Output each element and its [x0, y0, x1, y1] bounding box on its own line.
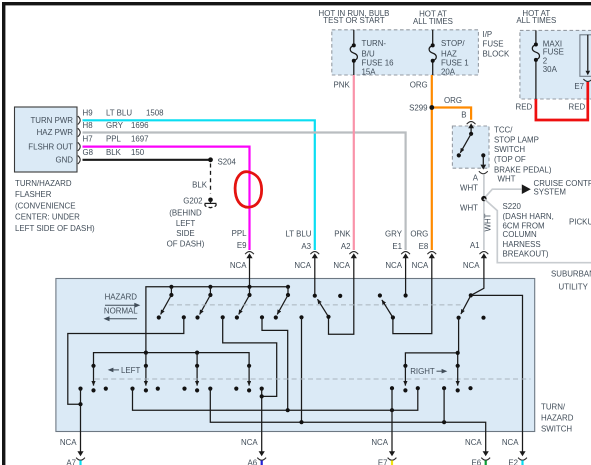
- wire lower bus 1: [133, 388, 418, 410]
- svg-text:NCA: NCA: [294, 261, 311, 270]
- node lower bus 2 junction a: [299, 420, 303, 424]
- A1 pivot dot: [469, 293, 473, 297]
- left bank blade 3: [195, 353, 199, 393]
- annotation red ellipse around PPL wire: [235, 172, 262, 208]
- label: PPL / E9 / NCA: [230, 229, 247, 270]
- connector pin A6: [257, 451, 266, 465]
- svg-text:S204: S204: [218, 157, 237, 166]
- label: RIGHT with arrow: [410, 367, 447, 376]
- wire BLK 150 flasher G8 to S204: [83, 159, 211, 161]
- svg-text:HAZ: HAZ: [441, 49, 457, 58]
- wire WHT branch to cruise control: [484, 189, 522, 198]
- E1 free contact dot: [378, 293, 382, 297]
- fuse F16 TURN-B/U 15A: [350, 30, 357, 75]
- svg-text:B: B: [461, 111, 466, 120]
- svg-text:NCA: NCA: [385, 261, 402, 270]
- right bank blade 2: [456, 364, 460, 393]
- svg-text:COLUMN: COLUMN: [503, 230, 537, 239]
- wire A1 contact to right bank bus: [458, 318, 460, 353]
- svg-text:ORG: ORG: [444, 96, 462, 105]
- svg-text:WHT: WHT: [460, 183, 478, 192]
- wire RED maxi fuse to E7: [536, 82, 588, 120]
- turn/hazard switch box: [56, 279, 535, 432]
- wire E6 feed: [443, 388, 445, 422]
- wire hazard contact 4 to lower bus: [301, 317, 303, 422]
- TCC switch contacts: [457, 132, 488, 174]
- label: NCA / A7: [60, 438, 77, 465]
- svg-text:BLK: BLK: [192, 180, 208, 189]
- svg-text:NCA: NCA: [333, 261, 350, 270]
- hazard contacts right row: [182, 315, 304, 319]
- svg-text:TURN-: TURN-: [362, 39, 387, 48]
- svg-text:BLK: BLK: [106, 148, 122, 157]
- connector pin E1 at switch: [401, 252, 410, 259]
- flasher pin arc H9: [78, 116, 80, 124]
- page frame top border: [2, 2, 591, 5]
- flasher pin arc G8: [78, 156, 80, 164]
- splice S299: [429, 105, 434, 110]
- ground G202: [205, 198, 217, 208]
- mechanical linkage dashed (upper): [169, 304, 461, 306]
- svg-text:PNK: PNK: [334, 229, 351, 238]
- TCC/stop lamp switch dashed box: [452, 126, 489, 168]
- svg-text:B/U: B/U: [362, 49, 375, 58]
- svg-text:PICKUP: PICKUP: [569, 218, 591, 227]
- svg-text:1508: 1508: [146, 108, 164, 117]
- wire lower bus 2 to E6 exit: [210, 389, 485, 454]
- connector pin A7: [76, 451, 85, 465]
- svg-text:FUSE 16: FUSE 16: [362, 58, 395, 67]
- node lower bus 1 junction b: [390, 408, 394, 412]
- label: GRY / E1 / NCA: [385, 229, 403, 270]
- svg-text:NCA: NCA: [230, 261, 247, 270]
- hazard blade 2: [200, 287, 213, 315]
- connector pin E2: [518, 451, 527, 465]
- svg-text:TURN/: TURN/: [541, 402, 566, 411]
- svg-text:HAZ PWR: HAZ PWR: [37, 128, 74, 137]
- A3 blade (pivot up-left arrow): [318, 299, 331, 319]
- label: NCA / A6: [241, 438, 258, 465]
- node bus junction 2: [208, 285, 212, 289]
- right bank blade 1: [403, 364, 407, 393]
- node A6 junction: [260, 394, 264, 398]
- wire E8 entry to E1 blade pivot: [393, 258, 432, 334]
- svg-text:SIDE: SIDE: [176, 229, 194, 238]
- svg-text:STOP/: STOP/: [441, 39, 465, 48]
- svg-text:(CONVENIENCE: (CONVENIENCE: [15, 201, 76, 210]
- label: SUBURBAN UTILITY: [551, 269, 591, 291]
- wire A1 entry to A1 blade pivot: [471, 258, 484, 296]
- label: CRUISE CONTROL SYSTEM: [534, 179, 591, 196]
- svg-text:(TOP OF: (TOP OF: [494, 155, 526, 164]
- svg-text:E6: E6: [472, 458, 482, 465]
- svg-text:FLASHER: FLASHER: [15, 190, 52, 199]
- right contact row dots: [390, 386, 473, 390]
- node bus junction 1: [169, 285, 173, 289]
- label: HOT IN RUN, BULB TEST OR START: [319, 9, 390, 25]
- connector pin E6: [481, 451, 490, 465]
- svg-text:FUSE: FUSE: [543, 48, 564, 57]
- wire hazard contact 1 to A7 line: [68, 317, 184, 404]
- svg-text:A1: A1: [470, 241, 480, 250]
- hazard blade contacts left row: [157, 315, 278, 319]
- A1 blade contact dot: [457, 316, 461, 320]
- svg-text:FLSHR OUT: FLSHR OUT: [28, 143, 73, 152]
- wire PNK fuse 16 to switch A2: [353, 75, 355, 250]
- label: HOT AT ALL TIMES (maxi): [516, 9, 556, 25]
- svg-text:HAZARD: HAZARD: [105, 293, 138, 302]
- splice S204: [208, 157, 213, 162]
- hazard blade 4: [277, 287, 290, 315]
- maxi fuse block dashed box: [520, 30, 591, 99]
- svg-text:HAZARD: HAZARD: [541, 413, 574, 422]
- A3 free contact dot: [338, 294, 342, 298]
- svg-text:20A: 20A: [441, 68, 456, 77]
- splice node S220: [481, 196, 486, 201]
- svg-text:SWITCH: SWITCH: [541, 424, 572, 433]
- svg-text:TCC/: TCC/: [494, 126, 513, 135]
- svg-text:SUBURBAN/: SUBURBAN/: [551, 269, 591, 278]
- node left bus junction 2: [195, 351, 199, 355]
- svg-text:E7: E7: [574, 82, 584, 91]
- A3 contact dot: [313, 294, 317, 298]
- svg-text:E8: E8: [419, 242, 429, 251]
- label: TURN-B/U FUSE 16 15A: [362, 39, 395, 76]
- svg-text:E1: E1: [392, 242, 402, 251]
- svg-text:BRAKE PEDAL): BRAKE PEDAL): [494, 165, 552, 174]
- connector pin A2 at switch: [349, 252, 358, 259]
- right bank bus: [405, 353, 457, 366]
- label: (BEHIND LEFT SIDE OF DASH): [167, 209, 205, 249]
- connector pin A1 at switch: [480, 252, 489, 259]
- label: ORG / E8 / NCA: [410, 229, 429, 270]
- svg-text:BLOCK: BLOCK: [483, 49, 510, 58]
- wire E9 entry to hazard bus: [249, 258, 251, 287]
- svg-text:LEFT: LEFT: [121, 366, 140, 375]
- svg-text:OF DASH): OF DASH): [167, 239, 205, 248]
- svg-text:NCA: NCA: [502, 438, 519, 447]
- wire E7 exit: [391, 388, 393, 454]
- svg-text:HARNESS: HARNESS: [503, 240, 541, 249]
- svg-text:UTILITY: UTILITY: [559, 283, 589, 292]
- label: PNK / A2 / NCA: [333, 229, 351, 270]
- E1 blade (pivot up-left arrow): [382, 300, 395, 320]
- svg-text:NCA: NCA: [241, 438, 258, 447]
- left contact row dots: [78, 387, 263, 391]
- svg-text:NCA: NCA: [60, 438, 77, 447]
- svg-text:RED: RED: [516, 102, 533, 111]
- svg-text:SYSTEM: SYSTEM: [534, 188, 566, 197]
- svg-text:GND: GND: [55, 156, 73, 165]
- label: TURN/HAZARD SWITCH: [541, 402, 574, 433]
- svg-text:FUSE: FUSE: [483, 39, 504, 48]
- wire A3 entry to contact: [314, 258, 316, 294]
- svg-text:A2: A2: [341, 242, 351, 251]
- I/P fuse block dashed box: [332, 30, 479, 75]
- svg-text:PPL: PPL: [106, 135, 122, 144]
- svg-text:ORG: ORG: [410, 81, 428, 90]
- connector box inside maxi fuse block: [580, 35, 591, 77]
- svg-text:S299: S299: [409, 103, 428, 112]
- flasher internal labels TURN PWR / HAZ PWR / FLSHR OUT / GND: [28, 116, 73, 165]
- flasher pin arc H8: [78, 128, 80, 136]
- svg-text:I/P: I/P: [483, 30, 493, 39]
- label: HOT AT ALL TIMES (I/P): [413, 9, 453, 26]
- svg-text:RIGHT: RIGHT: [410, 367, 435, 376]
- svg-text:E2: E2: [508, 458, 518, 465]
- svg-text:WHT: WHT: [498, 175, 516, 184]
- svg-text:NCA: NCA: [465, 438, 482, 447]
- wire inside maxi connector box to pin E7: [583, 35, 591, 82]
- label: HAZARD with arrow: [105, 293, 141, 308]
- left bank blade 1: [91, 364, 95, 393]
- svg-text:E7: E7: [378, 458, 388, 465]
- svg-text:TURN PWR: TURN PWR: [30, 116, 73, 125]
- fuse MAXI 2 30A: [532, 30, 539, 99]
- wire GRY 1696 flasher H8 to switch E1: [83, 133, 406, 251]
- wire E1 entry to contact: [405, 258, 407, 294]
- svg-text:CENTER: UNDER: CENTER: UNDER: [15, 213, 80, 222]
- node left bus junction feed: [144, 351, 148, 355]
- node bus junction E9: [247, 285, 251, 289]
- svg-text:A6: A6: [248, 458, 258, 465]
- svg-text:(DASH HARN,: (DASH HARN,: [503, 212, 554, 221]
- node lower bus 1 junction a: [286, 408, 290, 412]
- svg-text:LT BLU: LT BLU: [285, 229, 311, 238]
- E1 contact dot: [404, 293, 408, 297]
- node A7 junction: [78, 402, 82, 406]
- wire hazard contact 3 to bottom bus: [262, 317, 288, 410]
- hazard blade 1: [161, 287, 174, 315]
- node lower bus 2 junction b: [442, 420, 446, 424]
- connector pin E8 at switch: [427, 252, 436, 259]
- left bank blade 4: [247, 364, 251, 393]
- svg-text:LEFT SIDE OF DASH): LEFT SIDE OF DASH): [15, 224, 95, 233]
- svg-text:STOP LAMP: STOP LAMP: [494, 136, 539, 145]
- svg-text:H9: H9: [83, 109, 94, 118]
- wire WHT TCC A down to splice S220 and connector A1: [483, 174, 485, 250]
- connector pin A3 at switch: [310, 252, 319, 259]
- wire dashed BLK S204 to G202: [210, 164, 212, 194]
- label: LEFT with arrow: [108, 366, 141, 375]
- label: TCC/ STOP LAMP SWITCH (TOP OF BRAKE PEDAL): [494, 126, 552, 175]
- label: NCA / E2: [502, 438, 519, 465]
- svg-text:E9: E9: [237, 241, 247, 250]
- wire PPL 1697 flasher H7 to switch E9: [83, 147, 250, 250]
- wire ORG fuse 1 to S299 to switch E8: [431, 75, 433, 250]
- svg-text:NORMAL: NORMAL: [104, 307, 138, 316]
- svg-text:TEST OR START: TEST OR START: [323, 16, 385, 25]
- svg-text:GRY: GRY: [106, 121, 124, 130]
- label: NCA / E6: [465, 438, 482, 465]
- svg-text:NCA: NCA: [371, 438, 388, 447]
- label: LT BLU / A3 / NCA: [285, 229, 311, 270]
- svg-text:LT BLU: LT BLU: [106, 108, 132, 117]
- svg-text:TURN/HAZARD: TURN/HAZARD: [15, 179, 72, 188]
- wire A2 entry to A3 blade pivot: [329, 258, 354, 334]
- svg-text:A: A: [473, 173, 479, 182]
- hazard blade 3: [239, 287, 252, 315]
- svg-text:1696: 1696: [131, 121, 149, 130]
- svg-text:GRY: GRY: [385, 229, 403, 238]
- svg-text:NCA: NCA: [463, 261, 480, 270]
- svg-text:PPL: PPL: [232, 229, 248, 238]
- label: STOP/HAZ FUSE 1 20A: [441, 39, 469, 76]
- left bank blade 2: [144, 353, 148, 393]
- fuse F1 STOP/HAZ 20A: [429, 30, 436, 75]
- wire A1 pivot to E2 exit: [471, 295, 523, 453]
- svg-text:(BEHIND: (BEHIND: [169, 209, 202, 218]
- page frame left border: [2, 2, 5, 465]
- connector pin E9 at switch: [245, 252, 254, 259]
- svg-text:A7: A7: [66, 458, 76, 465]
- svg-text:ALL TIMES: ALL TIMES: [413, 17, 453, 26]
- left bank bus: [94, 353, 250, 366]
- svg-text:FUSE 1: FUSE 1: [441, 58, 469, 67]
- mechanical linkage dashed (lower): [95, 378, 531, 380]
- wire WHT branch to pickup: [484, 199, 591, 263]
- label: I/P FUSE BLOCK: [483, 30, 510, 59]
- wire ORG S299 branch to B: [432, 108, 471, 120]
- svg-text:150: 150: [131, 148, 145, 157]
- svg-text:ORG: ORG: [410, 229, 428, 238]
- svg-text:G202: G202: [183, 196, 202, 205]
- hazard feed bus: [146, 287, 289, 353]
- label: NORMAL with arrow: [104, 307, 139, 322]
- flasher pin arc H7: [78, 142, 80, 150]
- svg-text:G8: G8: [83, 148, 94, 157]
- svg-text:NCA: NCA: [412, 261, 429, 270]
- svg-text:WHT: WHT: [460, 203, 478, 212]
- label: MAXI FUSE 2 30A: [543, 39, 564, 73]
- A1 blade down-left arrow: [461, 295, 471, 314]
- svg-text:RED: RED: [569, 102, 586, 111]
- svg-text:SWITCH: SWITCH: [494, 145, 525, 154]
- svg-text:1697: 1697: [131, 135, 149, 144]
- svg-text:BREAKOUT): BREAKOUT): [503, 250, 549, 259]
- connector pin B into TCC switch: [467, 122, 476, 134]
- label: TURN/HAZARD FLASHER (CONVENIENCE CENTER: UNDER LEFT SIDE OF DASH): [15, 179, 95, 233]
- wire A7 exit: [80, 389, 82, 454]
- svg-text:A3: A3: [301, 242, 311, 251]
- wire LT BLU 1508 flasher H9 to switch A3: [83, 120, 315, 250]
- wire A6 exit: [261, 389, 263, 454]
- label: S220 (DASH HARN, 6CM FROM COLUMN HARNESS BREAKOUT): [503, 202, 554, 258]
- label: NCA / E7: [371, 438, 388, 465]
- svg-text:LEFT: LEFT: [176, 219, 195, 228]
- svg-text:ALL TIMES: ALL TIMES: [516, 16, 556, 25]
- A1 free contact dot: [481, 316, 485, 320]
- connector pin E7: [388, 451, 397, 465]
- svg-text:H7: H7: [83, 135, 93, 144]
- svg-text:PNK: PNK: [334, 81, 351, 90]
- svg-text:S220: S220: [503, 202, 522, 211]
- svg-text:WHT: WHT: [484, 213, 493, 231]
- svg-text:15A: 15A: [362, 68, 377, 77]
- node right bus junction: [456, 351, 460, 355]
- turn/hazard flasher box: [15, 107, 78, 172]
- svg-text:H8: H8: [83, 121, 94, 130]
- cruise control arrow: [522, 184, 531, 194]
- node bus end: [286, 285, 290, 289]
- wire hazard contact 2 to A6 contact: [223, 317, 277, 396]
- svg-text:30A: 30A: [543, 65, 558, 74]
- label: A1 / NCA: [463, 241, 480, 270]
- svg-text:6CM FROM: 6CM FROM: [503, 221, 545, 230]
